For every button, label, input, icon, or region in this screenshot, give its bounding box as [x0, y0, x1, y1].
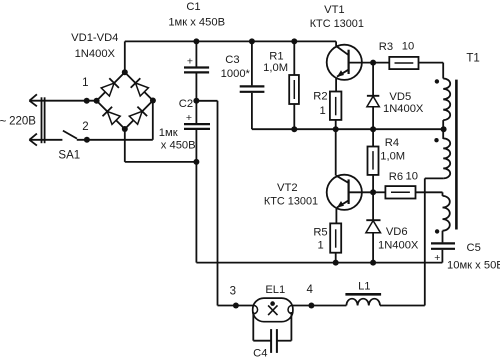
wire C4 right lead — [277, 340, 292, 342]
svg-text:+: + — [186, 112, 192, 124]
svg-text:КТС 13001: КТС 13001 — [264, 195, 318, 207]
svg-text:~: ~ — [0, 116, 7, 128]
svg-text:1000*: 1000* — [221, 68, 251, 80]
svg-text:C4: C4 — [253, 348, 267, 358]
wire R3 left lead — [373, 62, 389, 64]
svg-text:R6: R6 — [389, 171, 403, 183]
lamp EL1 dot — [270, 301, 275, 306]
wire VD6 bottom lead — [372, 233, 374, 263]
wire switch to node 2 — [77, 139, 96, 141]
wire bridge bottom down — [124, 129, 126, 162]
svg-text:R1: R1 — [269, 51, 283, 63]
wire C1C2 node to feed — [196, 100, 217, 102]
svg-text:220В: 220В — [9, 116, 36, 128]
wire lamp feed vertical — [217, 101, 219, 306]
wire VT2 emitter lead — [335, 208, 337, 223]
svg-text:1,0M: 1,0M — [263, 62, 288, 74]
wire L1 to return — [380, 305, 425, 307]
svg-text:10: 10 — [405, 170, 417, 182]
svg-text:T1: T1 — [466, 53, 479, 65]
wire C5 bottom lead — [441, 250, 443, 263]
svg-text:1мк x 450В: 1мк x 450В — [168, 16, 225, 28]
svg-text:R5: R5 — [313, 227, 327, 239]
diode VD4 (bridge bottom-right) — [129, 111, 142, 124]
svg-text:3: 3 — [230, 285, 236, 297]
svg-text:1N400X: 1N400X — [75, 48, 116, 60]
wire VT1 emitter lead — [335, 78, 337, 92]
wire T1 top winding lead — [442, 63, 444, 79]
wire C2 top lead — [195, 101, 197, 123]
transformer T1 winding 3 — [442, 196, 449, 231]
wire bridge top to rail — [124, 41, 126, 72]
capacitor C3 — [240, 85, 265, 87]
node 4 — [308, 303, 314, 309]
transformer T1 winding 1 — [443, 79, 450, 121]
wire R4 bottom lead — [372, 175, 374, 192]
wire R1 bottom lead — [293, 104, 295, 129]
svg-text:VT1: VT1 — [324, 4, 345, 16]
svg-text:КТС 13001: КТС 13001 — [310, 18, 364, 30]
wire winding2 bottom lead — [425, 177, 443, 179]
resistor R6 — [385, 186, 415, 198]
svg-text:4: 4 — [306, 284, 313, 296]
svg-text:SA1: SA1 — [58, 150, 80, 162]
capacitor C1 — [184, 66, 209, 68]
wire C1 top lead — [195, 41, 197, 66]
wire AC bottom to switch — [29, 139, 62, 141]
wire R6 to winding3 — [442, 192, 444, 196]
svg-text:VT2: VT2 — [277, 182, 298, 194]
svg-text:VD5: VD5 — [389, 91, 411, 103]
svg-text:C1: C1 — [186, 1, 200, 13]
wire AC top to bridge — [29, 100, 96, 102]
lamp EL1 X mark — [268, 305, 277, 315]
AC plug arrows and label ~220V — [29, 94, 37, 100]
transformer T1 core — [455, 80, 458, 230]
svg-text:1: 1 — [82, 77, 88, 89]
wire mid rail — [252, 128, 443, 130]
wire bridge bottom to C2 node — [125, 161, 197, 163]
svg-text:C5: C5 — [467, 242, 481, 254]
resistor R3 — [389, 57, 418, 69]
switch SA1 lever — [63, 131, 77, 139]
svg-text:+: + — [434, 252, 440, 264]
diode VD1 (bridge top-left) — [101, 83, 114, 96]
node VD5 bottom — [370, 126, 376, 132]
svg-text:2: 2 — [82, 121, 88, 133]
svg-text:R3: R3 — [379, 41, 393, 53]
svg-text:x 450В: x 450В — [161, 140, 196, 152]
transformer T1 winding 2 — [443, 138, 450, 178]
wire VT1 base lead — [349, 62, 374, 64]
wire VD6 top lead — [372, 192, 374, 219]
svg-text:1: 1 — [319, 105, 325, 117]
wire tap to winding2 — [442, 129, 444, 139]
winding 3 polarity dot — [435, 229, 439, 233]
inductor L1 — [346, 299, 380, 306]
svg-text:R4: R4 — [385, 137, 399, 149]
lamp EL1 left electrode arc — [253, 305, 257, 313]
wire R3 right lead — [419, 62, 444, 64]
svg-text:R2: R2 — [313, 91, 327, 103]
wire R2 bottom lead — [335, 120, 337, 129]
svg-text:10мк x 50В: 10мк x 50В — [447, 259, 500, 271]
bridge diamond wires — [97, 72, 153, 129]
wire R4 top lead — [372, 129, 374, 146]
wire VT1 collector — [335, 41, 337, 46]
diode VD2 (bridge top-right) — [136, 83, 149, 96]
resistor R1 — [289, 75, 299, 104]
svg-text:EL1: EL1 — [265, 284, 285, 296]
node 1 — [84, 98, 90, 104]
svg-text:1N400X: 1N400X — [378, 239, 419, 251]
wire VD5 top lead — [372, 63, 374, 95]
node VD6 bottom — [370, 260, 376, 266]
node T1 tap — [441, 126, 447, 132]
node 3 — [233, 303, 239, 309]
transistor VT2 — [327, 175, 362, 210]
node C2 bottom — [193, 159, 199, 165]
resistor R5 — [330, 223, 341, 252]
wire C3 bottom lead — [251, 93, 253, 129]
wire L1 return vertical — [424, 178, 426, 305]
node C3 top — [249, 38, 255, 44]
node 2 — [84, 137, 90, 143]
diode VD6 — [366, 219, 380, 221]
lamp pin right — [290, 312, 292, 341]
capacitor C5 — [431, 242, 455, 244]
wire C2 bottom lead — [195, 130, 197, 162]
capacitor C2 — [184, 123, 210, 125]
wire negative trunk down — [195, 162, 197, 263]
svg-text:C3: C3 — [225, 54, 239, 66]
inductor L1 core bar — [345, 293, 381, 296]
svg-text:10: 10 — [402, 41, 414, 53]
lamp EL1 right electrode arc — [288, 305, 292, 313]
wire C1 bottom lead — [195, 74, 197, 101]
wire R6 right lead — [416, 191, 443, 193]
wire VT2 collector — [335, 129, 337, 175]
node R5 bottom — [333, 260, 339, 266]
svg-text:1: 1 — [317, 239, 323, 251]
wire up to bridge right vertex — [152, 101, 154, 140]
node C1 top — [193, 38, 199, 44]
wire R1 top lead — [293, 41, 295, 75]
svg-text:C2: C2 — [179, 98, 193, 110]
lamp pin left — [252, 312, 254, 341]
svg-text:VD1-VD4: VD1-VD4 — [71, 32, 118, 44]
wire winding1 to tap — [442, 120, 444, 129]
wire C3 top lead — [251, 41, 253, 85]
svg-text:1,0M: 1,0M — [380, 150, 405, 162]
transistor VT1 — [327, 45, 362, 80]
wire R5 bottom lead — [335, 253, 337, 263]
svg-text:VD6: VD6 — [386, 226, 408, 238]
node C1-C2 — [193, 98, 199, 104]
resistor R4 — [368, 147, 379, 175]
winding 2 polarity dot — [434, 138, 438, 142]
svg-text:+: + — [187, 56, 193, 68]
lamp EL1 envelope — [253, 298, 293, 322]
node R1 top — [291, 38, 297, 44]
wire lamp to L1 — [293, 305, 347, 307]
wire R6 left lead — [373, 191, 385, 193]
svg-text:1N400X: 1N400X — [383, 103, 424, 115]
capacitor C4 — [270, 329, 272, 353]
wire VT2 base lead — [349, 191, 374, 193]
wire C4 left lead — [253, 340, 271, 342]
node VT1 base — [370, 60, 376, 66]
node R1 bottom — [291, 126, 297, 132]
winding 1 polarity dot — [435, 79, 439, 83]
wire top rail — [125, 40, 336, 42]
bridge vertex dots — [94, 98, 100, 104]
wire feed to lamp — [218, 305, 253, 307]
wire VD5 bottom lead — [372, 107, 374, 130]
svg-text:L1: L1 — [358, 281, 370, 293]
wire node2 under bridge — [96, 139, 153, 141]
node VT2 base — [370, 189, 376, 195]
diode VD3 (bridge bottom-left) — [107, 112, 120, 125]
node R2 bottom — [333, 126, 339, 132]
resistor R2 — [330, 92, 342, 120]
diode VD5 — [367, 95, 379, 97]
wire bottom rail — [196, 262, 442, 264]
plug connector double lines — [41, 97, 43, 143]
wire winding3 to C5 — [442, 231, 444, 243]
svg-text:1мк: 1мк — [159, 127, 178, 139]
